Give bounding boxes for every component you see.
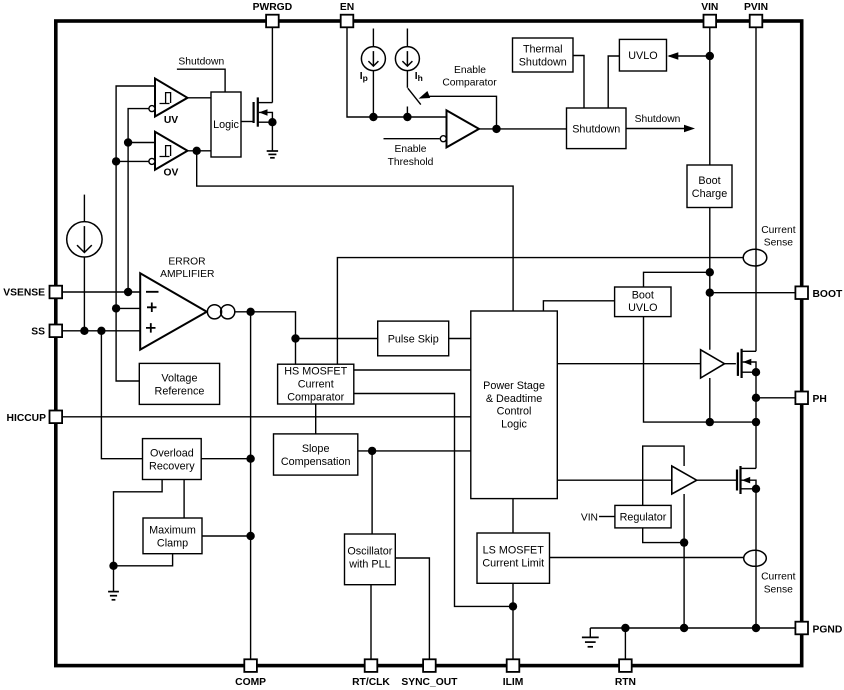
named node Shutdown into Logic	[177, 69, 225, 92]
svg-text:PH: PH	[813, 394, 827, 405]
gate driver U3 (low side)	[672, 466, 697, 494]
svg-text:BOOT: BOOT	[813, 289, 843, 300]
inverting bubble on enable comparator	[440, 136, 446, 142]
wire VIN pin to Boot Charge	[709, 27, 711, 165]
error amplifier input polarity symbols	[146, 292, 159, 333]
block Boot UVLO	[615, 287, 671, 317]
wire Logic output to Q1 gate	[241, 121, 254, 123]
svg-text:Control: Control	[497, 406, 532, 418]
wire VIN to UVLO input with arrowhead	[667, 52, 710, 60]
ground (analog ground below maximum clamp)	[108, 592, 119, 600]
block LS MOSFET Current Limit	[477, 533, 550, 583]
wire RTN pin to power ground line	[624, 628, 626, 660]
current source Ip (enable pull-up current)	[361, 47, 385, 71]
svg-text:UV: UV	[164, 115, 178, 126]
svg-text:SS: SS	[31, 326, 45, 337]
svg-text:Compensation: Compensation	[281, 456, 351, 468]
pin VIN	[701, 2, 718, 27]
wire pulse skip to power stage	[449, 338, 471, 340]
wire error amplifier output to COMP pin	[250, 312, 252, 660]
wire VIN input to Regulator	[599, 516, 615, 518]
wire VSENSE pin to error amplifier inverting input	[62, 291, 140, 293]
current sense CS2 (low side)	[744, 550, 767, 566]
wire Ip current source stub	[372, 29, 374, 47]
current sense CS1 (high side)	[743, 249, 767, 266]
block Power Stage and Deadtime Control Logic	[471, 311, 558, 499]
wire Boot UVLO low rail to PH node	[644, 317, 757, 423]
svg-text:Enable: Enable	[454, 65, 486, 76]
block Pulse Skip	[378, 321, 449, 356]
pin COMP	[235, 659, 266, 688]
svg-text:PVIN: PVIN	[744, 2, 768, 13]
wire PWRGD pin to Q1 drain	[271, 27, 273, 103]
svg-text:Shutdown: Shutdown	[572, 123, 620, 135]
wire SS pin to error amplifier second non-inverting input	[62, 330, 140, 332]
wire HS comparator second output to ILIM net	[354, 394, 513, 607]
wire slope compensation to power stage	[358, 450, 471, 452]
junction LS driver rail	[680, 538, 688, 546]
junction ILIM net	[509, 602, 517, 610]
pin VSENSE	[3, 286, 62, 299]
svg-text:UVLO: UVLO	[628, 302, 657, 314]
ground (below Q1 source)	[267, 151, 278, 158]
svg-text:with PLL: with PLL	[348, 559, 390, 571]
block Voltage Reference	[139, 363, 219, 404]
junction error amplifier output	[246, 308, 299, 343]
transistor Q1 n-channel MOSFET PWRGD pull-down	[254, 97, 277, 126]
svg-text:Oscillator: Oscillator	[347, 546, 392, 558]
block Logic (power good logic)	[211, 92, 241, 157]
svg-text:Boot: Boot	[632, 290, 654, 302]
wire Ih source to switch	[406, 71, 408, 88]
wire maximum clamp bottom to ground node	[114, 554, 173, 566]
wire Shutdown block output arrow	[626, 125, 695, 133]
svg-text:Recovery: Recovery	[149, 461, 195, 473]
pin BOOT	[795, 286, 843, 300]
wire UVLO to Shutdown block	[608, 56, 619, 108]
svg-text:Maximum: Maximum	[149, 524, 196, 536]
wire error amp output node to pulse skip and HS comparator	[235, 312, 378, 364]
hysteresis symbol inside OV comparator	[160, 146, 171, 157]
svg-text:Ip: Ip	[360, 71, 368, 83]
wire SS current source to SS line	[83, 257, 85, 331]
wire Q3 source through current sense to power ground line	[755, 489, 757, 628]
svg-text:SYNC_OUT: SYNC_OUT	[401, 677, 458, 688]
junctions on EN net	[369, 113, 411, 121]
net VSENSE sense: UV inverting input and OV non-inverting input to VSENSE line	[128, 109, 155, 292]
wire Ip source to EN net	[372, 71, 374, 117]
svg-text:VIN: VIN	[701, 2, 718, 13]
junctions on power ground line	[621, 624, 760, 632]
svg-text:Overload: Overload	[150, 448, 194, 460]
svg-text:Current: Current	[761, 572, 795, 583]
svg-text:Voltage: Voltage	[161, 372, 197, 384]
wire HICCUP pin to power stage	[62, 416, 471, 418]
wire overload recovery output to COMP net	[201, 458, 250, 460]
svg-text:ILIM: ILIM	[503, 677, 524, 688]
wire oscillator to slope compensation line	[371, 451, 373, 534]
svg-text:PGND: PGND	[813, 624, 843, 635]
block Regulator	[615, 505, 671, 528]
svg-text:Threshold: Threshold	[388, 157, 434, 168]
wire LS gate driver output to Q3 gate	[697, 479, 736, 481]
junctions on reference and sense nets	[112, 138, 132, 312]
wire UV comparator output to Logic	[188, 97, 212, 99]
svg-text:Comparator: Comparator	[442, 78, 497, 89]
svg-text:COMP: COMP	[235, 677, 266, 688]
block Maximum Clamp	[143, 518, 202, 554]
junction enable comparator output	[492, 125, 500, 133]
wire maximum clamp output to COMP net	[202, 535, 251, 537]
wire HS current sense to HS MOSFET current comparator	[337, 258, 743, 365]
op-amp U1 error amplifier (gm)	[140, 273, 207, 349]
svg-text:Shutdown: Shutdown	[519, 57, 567, 69]
wire BOOT pin line	[710, 292, 795, 294]
pin ILIM	[503, 659, 524, 688]
svg-text:Current: Current	[298, 379, 334, 391]
inverting bubble on OV comparator	[149, 158, 155, 164]
pin RTN	[615, 659, 636, 688]
current source I1 (soft-start charge current)	[67, 222, 102, 257]
wire oscillator to SYNC_OUT pin	[395, 558, 429, 660]
svg-text:ERROR: ERROR	[168, 257, 205, 268]
svg-text:RT/CLK: RT/CLK	[352, 677, 390, 688]
svg-text:Logic: Logic	[213, 119, 239, 131]
wire LS driver bottom rail to ground line	[683, 494, 685, 628]
block Oscillator with PLL	[345, 534, 396, 585]
svg-text:PWRGD: PWRGD	[253, 2, 292, 13]
ground (power ground symbol)	[582, 637, 599, 646]
block UVLO	[619, 39, 666, 71]
wire OV comparator output to Logic and to power stage logic	[188, 151, 514, 311]
pin EN	[340, 2, 354, 27]
wire Regulator lower connection to driver rail	[643, 528, 684, 543]
wire HS gate driver output to Q2 gate	[725, 363, 736, 365]
transistor Q3 n-channel low-side MOSFET	[737, 466, 760, 494]
svg-text:Sense: Sense	[764, 585, 793, 596]
junctions on VIN/BOOT column	[706, 52, 714, 297]
svg-text:Regulator: Regulator	[620, 512, 667, 524]
svg-text:LS MOSFET: LS MOSFET	[483, 545, 545, 557]
wire Boot Charge to BOOT net and HS driver rail	[709, 208, 711, 423]
svg-text:Current: Current	[761, 225, 795, 236]
wire LS MOSFET current limit to current sense	[550, 557, 744, 559]
svg-text:Enable: Enable	[394, 144, 426, 155]
wire HS comparator first output to power stage	[354, 369, 471, 371]
comparator OV (overvoltage)	[155, 132, 188, 170]
pin SYNC_OUT	[401, 659, 458, 688]
svg-text:Slope: Slope	[302, 443, 330, 455]
svg-text:Shutdown: Shutdown	[178, 57, 224, 68]
svg-text:UVLO: UVLO	[628, 50, 657, 62]
wire Thermal Shutdown to Shutdown block	[573, 56, 584, 109]
wire oscillator to RT/CLK pin	[370, 585, 372, 660]
gate driver U2 (high side)	[701, 350, 725, 378]
svg-text:Clamp: Clamp	[157, 537, 188, 549]
pin PH	[795, 392, 826, 406]
wire Boot UVLO to power stage logic	[543, 301, 614, 311]
svg-text:Ih: Ih	[415, 71, 423, 83]
svg-text:Sense: Sense	[764, 238, 793, 249]
svg-text:& Deadtime: & Deadtime	[486, 393, 542, 405]
block Overload Recovery	[143, 439, 202, 480]
svg-text:VSENSE: VSENSE	[3, 287, 45, 298]
svg-text:Power Stage: Power Stage	[483, 380, 545, 392]
hysteresis symbol inside UV comparator	[160, 93, 171, 104]
svg-text:AMPLIFIER: AMPLIFIER	[160, 269, 214, 280]
pin HICCUP	[7, 411, 63, 425]
wire power stage to LS MOSFET current limit block	[512, 499, 514, 533]
pin PWRGD	[253, 2, 292, 27]
block Boot Charge	[687, 165, 732, 208]
wire SS net to overload recovery input	[101, 331, 142, 459]
svg-text:EN: EN	[340, 2, 354, 13]
block Shutdown	[567, 108, 627, 149]
svg-text:Reference: Reference	[155, 385, 205, 397]
switch S1 (hysteresis current switch) blade and lower contact	[407, 88, 420, 117]
wire BOOT net to Boot UVLO input	[644, 272, 710, 287]
wire overload recovery to clamp ground node	[114, 480, 163, 592]
junction analog ground node	[109, 562, 117, 570]
pin SS	[31, 325, 62, 338]
wire HS comparator to slope compensation	[315, 404, 317, 434]
svg-text:HICCUP: HICCUP	[7, 413, 47, 424]
svg-text:Shutdown: Shutdown	[635, 114, 681, 125]
wire feedback from comparator output to switch S1 with arrowhead	[419, 91, 497, 129]
block HS MOSFET Current Comparator	[278, 364, 354, 404]
comparator UV (undervoltage)	[155, 79, 188, 117]
svg-text:Logic: Logic	[501, 419, 527, 431]
pin PGND	[795, 622, 842, 636]
wire overload recovery to maximum clamp	[183, 480, 185, 519]
wire power ground line ground stub	[589, 628, 591, 637]
wire Ih current source stub	[406, 29, 408, 47]
svg-text:Comparator: Comparator	[287, 391, 344, 403]
svg-text:Pulse Skip: Pulse Skip	[388, 333, 439, 345]
junction OV output	[193, 147, 201, 155]
inverting bubble on UV comparator	[149, 106, 155, 112]
pin RT/CLK	[352, 659, 390, 688]
block Slope Compensation	[274, 434, 358, 475]
wire enable comparator output to Shutdown block	[479, 128, 567, 130]
svg-text:VIN: VIN	[581, 512, 598, 523]
wire Regulator output to LS driver top rail	[643, 446, 684, 505]
junctions on PH/driver rail line	[706, 418, 761, 426]
junction PH node	[752, 394, 760, 402]
block Thermal Shutdown	[513, 38, 574, 72]
wire PVIN pin through current sense to Q2 drain	[755, 27, 757, 351]
wire power stage to LS gate driver input	[557, 479, 672, 481]
wire power ground line to PGND pin	[590, 627, 795, 629]
gm output symbol (double circle) of error amplifier	[207, 305, 234, 319]
wire PH pin line	[756, 397, 795, 399]
junctions on SS line	[80, 327, 105, 335]
svg-text:Boot: Boot	[698, 175, 720, 187]
net Voltage Reference output: UV top input, OV inverting input, error amp + input, reference box	[116, 86, 155, 381]
svg-text:RTN: RTN	[615, 677, 636, 688]
pin PVIN	[744, 2, 768, 27]
junctions on COMP net	[246, 455, 254, 541]
transistor Q2 n-channel high-side MOSFET	[738, 349, 760, 378]
named node Enable Threshold to comparator inverting input	[384, 138, 440, 140]
wire LS MOSFET current limit block to ILIM pin	[512, 583, 514, 660]
svg-text:Current Limit: Current Limit	[482, 558, 544, 570]
current source Ih (enable hysteresis current)	[395, 47, 419, 71]
wire stub above SS current source	[83, 195, 85, 222]
svg-text:HS MOSFET: HS MOSFET	[284, 366, 347, 378]
junction slope compensation output	[368, 447, 376, 455]
comparator Enable Comparator	[447, 110, 480, 147]
svg-text:Thermal: Thermal	[523, 44, 563, 56]
wire Q1 source to ground	[271, 122, 273, 151]
svg-text:Charge: Charge	[692, 188, 727, 200]
wire Q2 source to PH and Q3 drain	[755, 372, 757, 468]
wire EN pin down and to enable comparator non-inverting input	[347, 27, 447, 117]
wire power stage to HS gate driver input	[557, 363, 700, 365]
svg-text:OV: OV	[164, 167, 179, 178]
